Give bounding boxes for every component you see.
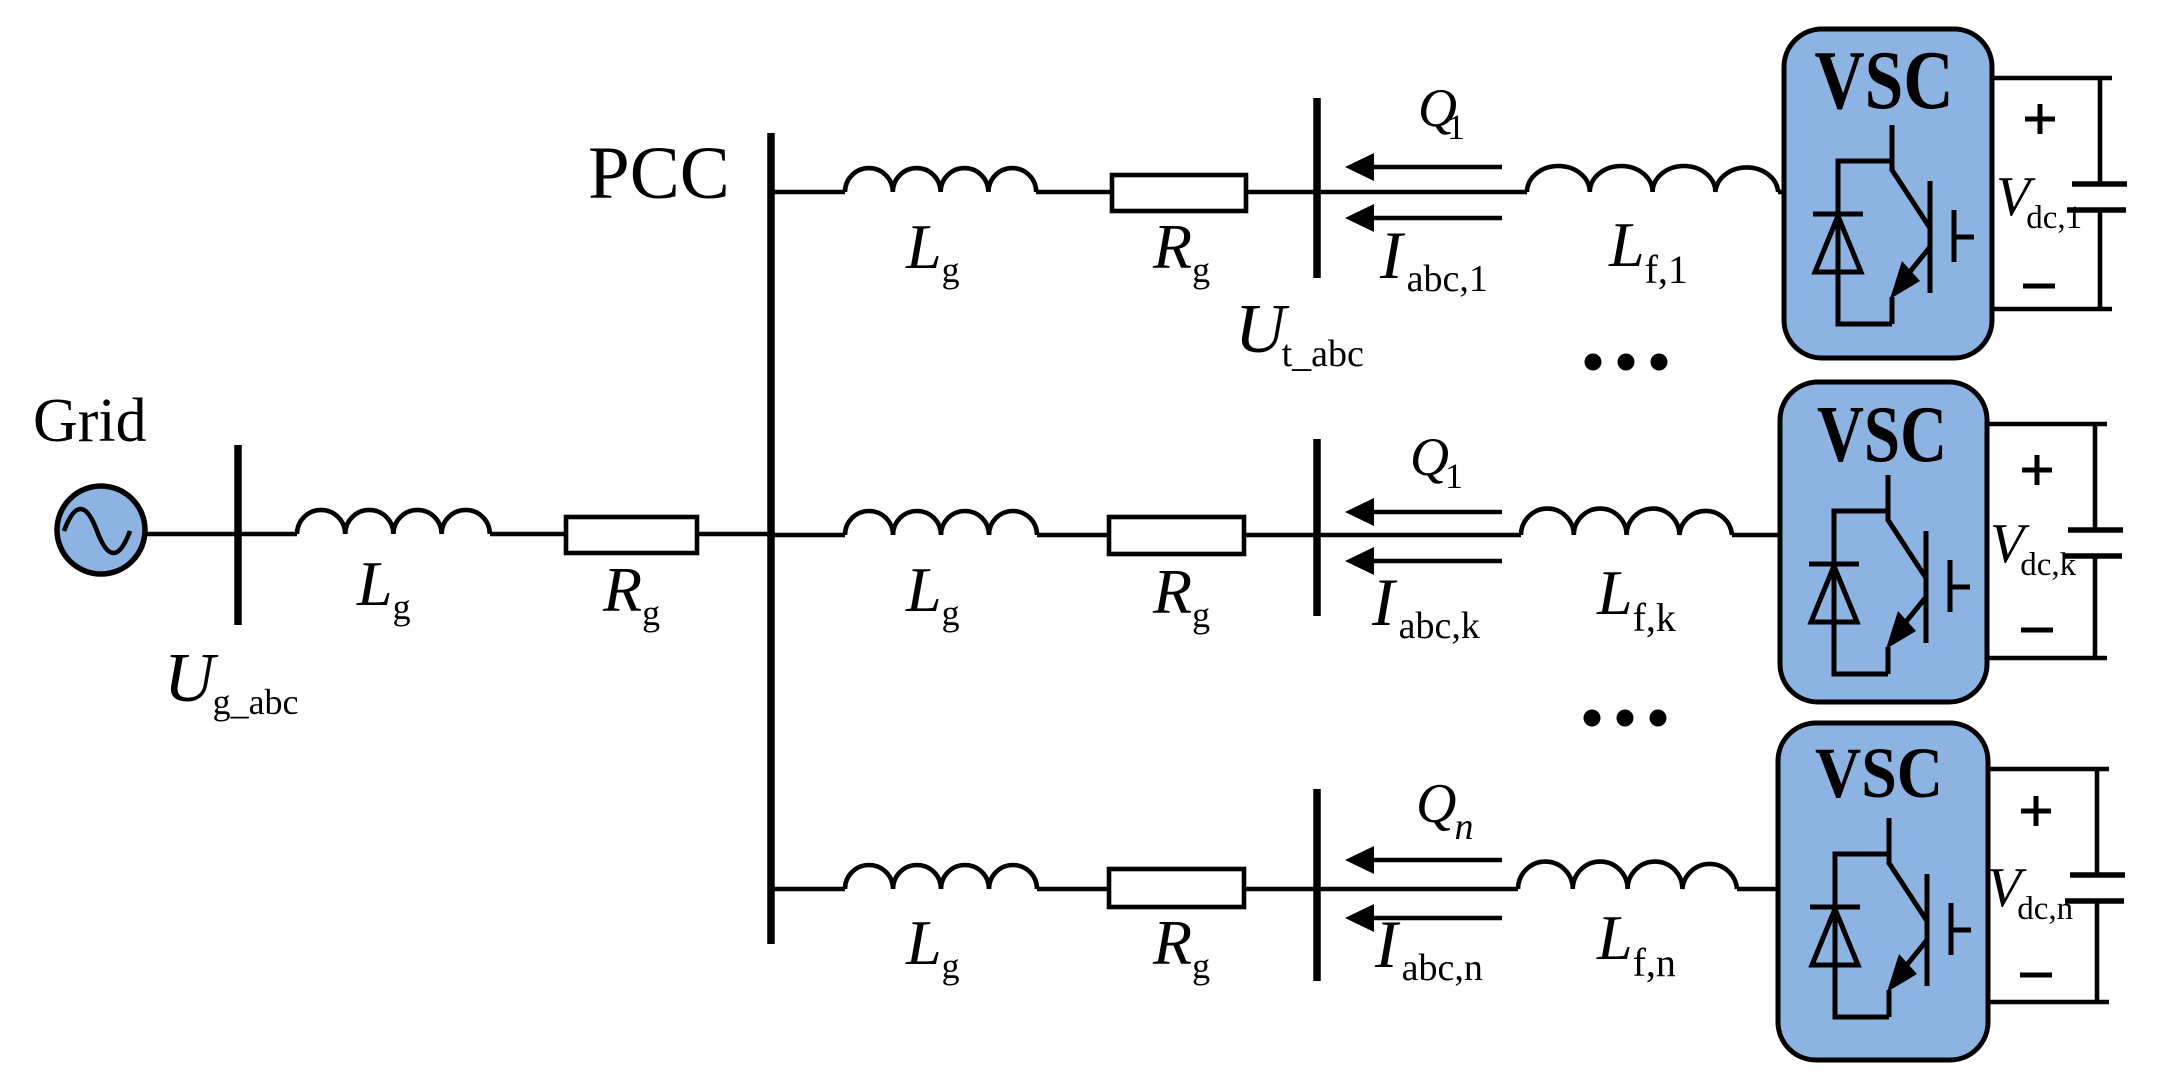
- VSCn IGBT gate: [1951, 903, 1971, 955]
- arrow Q1 (branch 2): [1345, 498, 1502, 526]
- bus branch 3: [1313, 789, 1321, 981]
- svg-text:VSC: VSC: [1815, 733, 1943, 813]
- VSC1 diode loop wires: [1838, 161, 1892, 324]
- inductor Lg (branch 1): [845, 168, 1036, 192]
- capacitor Vdc,n top wire: [1988, 769, 2109, 875]
- inductor Lf,k: [1521, 509, 1732, 535]
- arrow Iabc,n: [1345, 904, 1502, 932]
- dots between branch 1 and 2: [1585, 354, 1668, 371]
- resistor Rg (branch 1): [1112, 175, 1246, 211]
- VSCn IGBT bar: [1925, 874, 1930, 986]
- inductor Lg (branch 3): [845, 865, 1037, 889]
- wire: PCC to Lg,k: [771, 533, 845, 538]
- svg-text:Grid: Grid: [33, 387, 147, 455]
- VSCn diode triangle: [1812, 909, 1858, 965]
- capacitor Vdc,n bottom wire: [1988, 901, 2109, 1002]
- wire: Lg,k to Rg,k: [1037, 533, 1109, 538]
- capacitor Vdc,k plates: [2068, 527, 2123, 533]
- VSC1 IGBT gate: [1954, 210, 1974, 262]
- svg-text:VSC: VSC: [1815, 34, 1954, 127]
- VSCk IGBT emitter with arrow: [1888, 597, 1926, 674]
- VSCn IGBT emitter with arrow: [1889, 940, 1927, 1017]
- inductor Lg (branch 2): [845, 511, 1037, 535]
- wire: Lg,n to Rg,n: [1037, 887, 1109, 892]
- label minus (VSCn): [2020, 973, 2052, 978]
- VSC1 IGBT emitter with arrow: [1892, 247, 1930, 324]
- wire: Lf,k to VSCk: [1732, 533, 1782, 538]
- VSCk IGBT gate: [1950, 560, 1970, 612]
- VSCk IGBT collector lead: [1888, 475, 1926, 578]
- VSCn block: [1778, 723, 1988, 1060]
- resistor Rg (branch 2): [1109, 517, 1244, 554]
- arrow Iabc,1: [1345, 204, 1502, 232]
- inductor Lf,n: [1518, 862, 1737, 889]
- bus branch 2: [1313, 439, 1321, 616]
- label plus (VSCk): [2022, 455, 2052, 485]
- VSCk diode loop wires: [1834, 511, 1888, 674]
- label plus (VSCn): [2021, 796, 2051, 826]
- wire: PCC to Lg,1: [771, 190, 845, 195]
- VSCn diode loop wires: [1835, 854, 1889, 1017]
- wire: source to bus Ug_abc to inductor Lg: [145, 532, 297, 537]
- bus U_t_abc: [1313, 98, 1321, 278]
- label minus (VSC1): [2023, 284, 2055, 289]
- label minus (VSCk): [2021, 628, 2053, 633]
- wire: Lf,1 to VSC1: [1778, 190, 1786, 195]
- resistor Rg (grid): [566, 517, 697, 553]
- VSC1 diode cathode bar: [1813, 212, 1863, 217]
- capacitor Vdc,k top wire: [1987, 424, 2107, 530]
- VSCk diode triangle: [1811, 566, 1857, 622]
- capacitor Vdc,n plates: [2070, 872, 2125, 878]
- bus U_g_abc: [234, 445, 242, 625]
- VSCk diode cathode bar: [1809, 562, 1859, 567]
- wire: Lg to Rg (grid): [490, 532, 566, 537]
- wire: Lg,1 to Rg,1: [1036, 190, 1112, 195]
- PCC bus: [767, 133, 775, 944]
- arrow Qn: [1345, 846, 1502, 874]
- VSC1 block: [1784, 29, 1992, 358]
- arrow Q1 (branch 1): [1345, 153, 1502, 181]
- wire: PCC to Lg,n: [771, 887, 845, 892]
- capacitor Vdc,1 bottom wire: [1992, 210, 2112, 309]
- wire: Rg,1 through bus Ut to Lf,1: [1246, 190, 1527, 195]
- inductor Lg (grid): [297, 510, 490, 534]
- VSC1 IGBT collector lead: [1892, 125, 1930, 228]
- svg-text:VSC: VSC: [1817, 391, 1947, 479]
- capacitor Vdc,1 top wire: [1992, 78, 2112, 184]
- VSC1 IGBT bar: [1928, 181, 1933, 293]
- VSC1 diode triangle: [1815, 216, 1861, 272]
- capacitor Vdc,k bottom wire: [1987, 556, 2107, 658]
- wire: Rg,n through bus to Lf,n: [1244, 887, 1518, 892]
- AC source (grid): [57, 486, 145, 574]
- wire: Rg to PCC bus: [697, 532, 775, 537]
- VSCn IGBT collector lead: [1889, 818, 1927, 921]
- VSCk IGBT bar: [1924, 531, 1929, 643]
- VSCk block: [1780, 382, 1987, 702]
- arrow Iabc,k: [1345, 547, 1502, 575]
- inductor Lf,1: [1527, 166, 1778, 192]
- dots between branch 2 and 3: [1584, 710, 1667, 727]
- svg-text:PCC: PCC: [588, 132, 730, 215]
- VSCn diode cathode bar: [1810, 905, 1860, 910]
- wire: Lf,n to VSCn: [1737, 887, 1780, 892]
- label plus (VSC1): [2025, 104, 2055, 134]
- resistor Rg (branch 3): [1109, 869, 1244, 907]
- wire: Rg,k through bus to Lf,k: [1244, 533, 1521, 538]
- capacitor Vdc,1 plates: [2072, 181, 2127, 187]
